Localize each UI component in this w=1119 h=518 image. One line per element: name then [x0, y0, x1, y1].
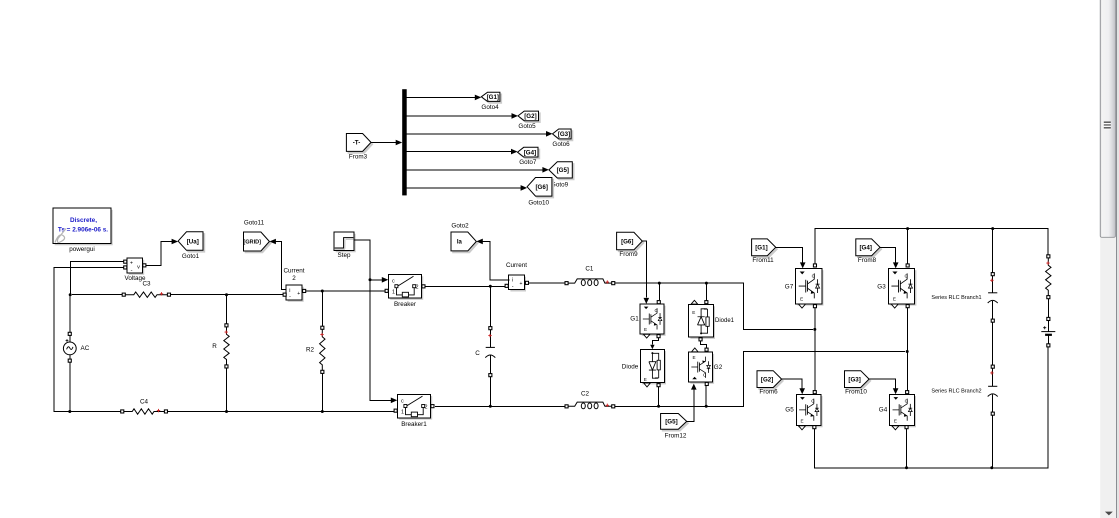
diode block Diode — [622, 349, 666, 387]
wire mux to Goto4 — [407, 95, 482, 101]
capacitor C — [475, 327, 495, 377]
wire C capacitor bottom riser — [489, 377, 492, 408]
goto Goto11 [GRID] (mirrored) — [243, 219, 271, 253]
svg-text:E: E — [692, 310, 695, 315]
svg-text:From9: From9 — [619, 251, 638, 258]
svg-text:powergui: powergui — [69, 246, 95, 253]
wire From12 to G2 gate — [687, 384, 697, 422]
svg-text:[G6]: [G6] — [621, 238, 633, 245]
svg-text:E: E — [800, 296, 803, 301]
wire bottom rail of bridge — [814, 347, 1048, 469]
svg-text:[Ua]: [Ua] — [187, 238, 199, 245]
svg-text:Goto5: Goto5 — [518, 123, 536, 130]
svg-text:Current: Current — [284, 268, 305, 275]
svg-text:G1: G1 — [630, 316, 639, 323]
wire From8 to G3 gate — [880, 247, 899, 268]
svg-text:Breaker1: Breaker1 — [401, 421, 427, 428]
voltage measurement block Voltage — [124, 258, 146, 282]
wire G1 collector riser — [658, 283, 660, 300]
wire mux to Goto9 — [407, 167, 549, 173]
goto Goto7 [G4] — [518, 147, 540, 166]
svg-text:Goto4: Goto4 — [481, 104, 499, 111]
svg-text:From8: From8 — [858, 257, 877, 264]
svg-text:+: + — [297, 291, 300, 297]
wire C2 to cluster and right leg low rail — [615, 350, 909, 408]
svg-text:R2: R2 — [306, 346, 315, 353]
svg-text:Diode1: Diode1 — [715, 318, 735, 324]
from From10 [G3] — [845, 371, 871, 396]
wire bottom rail — [70, 411, 394, 413]
svg-text:Ia: Ia — [457, 240, 463, 246]
wire AC top to node — [69, 295, 71, 333]
current measurement block Current — [505, 262, 528, 292]
wire From10 to G4 gate — [869, 379, 898, 394]
svg-text:From12: From12 — [665, 432, 687, 439]
IGBT G5 — [785, 391, 822, 430]
svg-text:E: E — [644, 327, 647, 332]
wire From6 to G5 gate — [782, 379, 805, 394]
svg-text:Current: Current — [506, 262, 527, 269]
svg-text:C2: C2 — [581, 390, 590, 397]
svg-text:[G4]: [G4] — [860, 245, 872, 252]
svg-text:From3: From3 — [349, 154, 368, 161]
svg-text:-: - — [131, 268, 133, 274]
IGBT G4 — [879, 391, 916, 430]
DC voltage source battery — [1041, 317, 1055, 347]
svg-text:[G5]: [G5] — [557, 167, 569, 174]
svg-text:E: E — [693, 355, 696, 360]
svg-text:Goto2: Goto2 — [451, 222, 469, 229]
svg-text:Goto6: Goto6 — [552, 141, 570, 148]
series RLC branch C3 (resistor) — [122, 281, 170, 298]
svg-text:-T-: -T- — [353, 140, 361, 147]
svg-text:From6: From6 — [759, 389, 778, 396]
svg-text:C3: C3 — [142, 281, 151, 288]
svg-text:G3: G3 — [877, 284, 886, 291]
series RLC branch C2 (inductor) — [565, 390, 615, 409]
svg-text:i: i — [512, 278, 513, 284]
load resistor (right) — [1046, 255, 1051, 299]
step source block Step — [334, 232, 356, 259]
svg-text:Series RLC Branch1: Series RLC Branch1 — [931, 295, 981, 301]
node B junction — [68, 410, 71, 413]
wire left leg G7 to G5 — [814, 308, 816, 391]
svg-text:2: 2 — [292, 275, 296, 282]
svg-text:[G3]: [G3] — [848, 376, 860, 383]
wire G1 emitter to Diode — [650, 338, 658, 349]
svg-text:C: C — [475, 350, 480, 357]
svg-text:[G3]: [G3] — [558, 131, 570, 138]
wire Diode1 riser — [705, 283, 707, 301]
wire to Voltage + input — [70, 262, 123, 295]
svg-text:[G5]: [G5] — [665, 419, 677, 426]
resistor R — [212, 324, 229, 368]
svg-text:+: + — [520, 281, 523, 287]
svg-text:[G2]: [G2] — [761, 376, 773, 383]
wire G4 bottom riser — [906, 429, 908, 468]
svg-text:Series RLC Branch2: Series RLC Branch2 — [931, 389, 981, 395]
wire mux to Goto5 — [407, 113, 518, 119]
wire Voltage output to Goto1 — [146, 239, 178, 266]
svg-text:Discrete,: Discrete, — [70, 217, 97, 224]
IGBT G3 — [877, 264, 916, 308]
wire mux to Goto7 — [407, 149, 518, 155]
wire C capacitor top riser — [489, 286, 491, 326]
svg-text:Goto7: Goto7 — [519, 159, 537, 166]
wire Current2 to Breaker port1 — [306, 290, 385, 293]
svg-text:Breaker: Breaker — [394, 301, 416, 308]
wire From11 to G7 gate — [776, 247, 806, 268]
wire G3 top riser — [907, 229, 909, 264]
svg-text:c: c — [392, 279, 395, 285]
wire Breaker1 out to C2 — [435, 405, 565, 407]
scrollbar thumb — [1100, 0, 1115, 237]
from From9 [G6] — [617, 232, 644, 258]
From3 tag block — [346, 134, 372, 161]
wire Step to Breaker and Breaker1 c inputs — [354, 240, 397, 403]
series RLC branch C4 (resistor) — [121, 398, 168, 414]
svg-text:R: R — [212, 343, 217, 350]
wire Current i-output to Goto2 — [476, 239, 509, 281]
svg-text:G4: G4 — [879, 407, 888, 414]
wire resistor to battery — [1047, 299, 1049, 317]
svg-text:-: - — [289, 294, 291, 300]
wire AC bottom to rail — [69, 362, 71, 411]
svg-text:+: + — [130, 260, 133, 266]
breaker block Breaker1 — [394, 394, 434, 428]
wire R top riser — [226, 295, 228, 324]
wire mux to Goto6 — [407, 131, 553, 137]
wire Breaker out to Current — [425, 285, 505, 288]
breaker block Breaker — [385, 275, 425, 308]
svg-text:From11: From11 — [752, 257, 774, 264]
wire to Voltage - input — [54, 268, 124, 412]
svg-text:c: c — [401, 399, 404, 405]
svg-text:E: E — [894, 418, 897, 423]
svg-text:[GRID]: [GRID] — [243, 240, 261, 246]
svg-text:E: E — [800, 418, 803, 423]
wire From3 to Mux — [371, 140, 402, 146]
AC voltage source — [63, 332, 89, 362]
diode block Diode1 (flipped) — [689, 300, 735, 341]
wire R2 top riser — [321, 291, 323, 326]
wire R2 bottom to rail — [321, 374, 324, 413]
svg-text:i: i — [289, 288, 290, 294]
wire between branches — [992, 323, 994, 365]
svg-text:C4: C4 — [140, 398, 149, 405]
goto Goto5 [G2] — [518, 111, 540, 130]
wire top rail — [815, 227, 1048, 264]
scrollbar track — [1100, 0, 1119, 518]
from From6 [G2] — [757, 371, 783, 396]
svg-text:AC: AC — [81, 345, 90, 352]
IGBT G1 — [630, 301, 665, 339]
IGBT G2 (flipped) — [689, 348, 723, 386]
wire R bottom to rail — [225, 368, 228, 413]
from From12 [G5] — [661, 414, 689, 440]
svg-text:[G1]: [G1] — [487, 94, 499, 101]
wire Diode bottom riser — [658, 387, 660, 406]
series RLC branch C1 (inductor) — [565, 265, 615, 285]
svg-text:Diode: Diode — [622, 363, 639, 370]
goto Goto2 Ia (mirrored) — [451, 222, 478, 252]
goto Goto6 [G3] — [552, 129, 572, 148]
scrollbar down arrow — [1105, 512, 1113, 516]
svg-text:Goto11: Goto11 — [244, 219, 265, 226]
wire Current2 i-output to Goto11 — [269, 239, 286, 290]
wire G2 bottom riser — [705, 386, 707, 406]
from From8 [G4] — [856, 239, 882, 264]
svg-text:1: 1 — [401, 409, 404, 415]
from From11 [G1] — [752, 239, 778, 264]
wire Current out to C1 — [529, 282, 565, 284]
svg-text:-: - — [512, 284, 514, 290]
svg-text:G5: G5 — [785, 407, 794, 414]
svg-text:G7: G7 — [785, 284, 794, 291]
svg-text:Step: Step — [338, 252, 351, 259]
powergui block — [53, 208, 113, 253]
goto Goto10 [G6] — [527, 178, 554, 207]
wire right leg G3 to G4 — [907, 308, 909, 391]
svg-text:[G4]: [G4] — [524, 149, 536, 156]
node A junction — [69, 293, 72, 296]
wire mux to Goto10 — [407, 185, 527, 191]
IGBT G7 — [785, 264, 824, 308]
svg-text:E: E — [644, 377, 647, 382]
goto Goto9 [G5] — [549, 162, 574, 189]
goto Goto4 [G1] — [481, 92, 501, 111]
resistor R2 — [306, 326, 325, 373]
mux/demux bar — [402, 89, 407, 195]
current measurement block Current 2 — [283, 268, 306, 302]
svg-text:v: v — [137, 264, 140, 270]
svg-text:C1: C1 — [585, 265, 594, 272]
series RLC Branch1 (capacitor) — [931, 229, 997, 323]
svg-text:[G6]: [G6] — [536, 184, 548, 191]
svg-text:[G1]: [G1] — [755, 245, 767, 252]
wire From9 to G1 gate — [642, 241, 649, 304]
svg-text:E: E — [893, 296, 896, 301]
wire Diode1 to G2 — [701, 341, 707, 348]
svg-text:1: 1 — [392, 290, 395, 296]
svg-text:From10: From10 — [845, 389, 867, 396]
svg-text:Goto1: Goto1 — [182, 253, 200, 260]
series RLC Branch2 (capacitor) — [931, 365, 997, 468]
svg-text:G2: G2 — [714, 364, 723, 371]
wire C1 to IGBT cluster and right leg — [615, 282, 816, 331]
svg-text:[G2]: [G2] — [524, 113, 536, 120]
wire C3 row to Current2 — [72, 293, 283, 296]
goto Goto1 [Ua] — [178, 232, 205, 260]
svg-text:Goto10: Goto10 — [528, 200, 549, 207]
